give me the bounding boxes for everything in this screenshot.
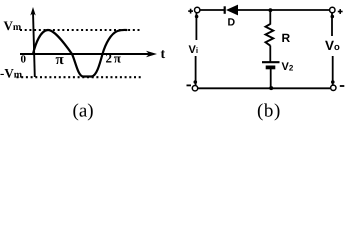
wire: battery to bottom rail	[270, 69, 272, 88]
svg-text:Vo: Vo	[325, 38, 340, 53]
plus sign top-right	[338, 9, 343, 14]
svg-text:t: t	[161, 47, 166, 62]
connection dot below top-right terminal	[331, 15, 335, 19]
terminal top-left (open circle)	[195, 7, 200, 12]
Vm dotted level line	[20, 29, 141, 31]
-Vm dotted level line	[17, 76, 142, 78]
terminal top-right (open circle)	[330, 7, 335, 12]
diode D (cathode bar left, triangle pointing left)	[224, 5, 238, 16]
svg-text:-Vm: -Vm	[0, 66, 23, 81]
minus sign bottom-left	[187, 84, 192, 86]
terminal bottom-left (open circle)	[192, 86, 197, 91]
connection dot above bottom-right terminal	[331, 80, 335, 84]
svg-text:0: 0	[21, 54, 27, 66]
wire: left rail lower segment	[195, 56, 197, 85]
sine wave curve	[33, 30, 127, 77]
wire: right rail lower segment	[332, 56, 334, 85]
svg-text:2π: 2π	[106, 51, 123, 66]
wire: left rail upper segment	[195, 13, 197, 40]
battery V2: long top plate	[262, 61, 280, 63]
minus sign bottom-right	[340, 85, 345, 87]
svg-text:(b): (b)	[257, 101, 281, 122]
junction node on bottom wire	[269, 86, 273, 90]
wire: right rail upper segment	[331, 13, 333, 36]
svg-text:π: π	[56, 52, 65, 68]
svg-text:(a): (a)	[73, 101, 94, 122]
svg-text:R: R	[282, 31, 291, 45]
connection dot above bottom-left terminal	[194, 80, 198, 84]
plus sign top-left	[188, 9, 193, 14]
y-axis (vertical axis with arrow)	[30, 7, 35, 77]
connection dot below top-left terminal	[195, 15, 199, 19]
wire: top rail right segment	[238, 9, 331, 11]
wire: bottom rail	[198, 87, 330, 89]
svg-text:Vi: Vi	[189, 44, 199, 56]
wire: middle branch top (junction to resistor)	[269, 11, 271, 25]
junction node on top wire	[269, 8, 273, 12]
svg-text:Vm: Vm	[4, 18, 22, 33]
t-axis (horizontal axis with arrow)	[20, 51, 157, 57]
wire: resistor to battery	[269, 46, 271, 63]
svg-text:D: D	[228, 17, 236, 29]
battery V2: short thick bottom plate	[266, 66, 276, 70]
svg-text:V2: V2	[282, 61, 294, 73]
resistor R (zigzag)	[266, 24, 274, 46]
wire: top rail left segment	[200, 9, 224, 11]
terminal bottom-right (open circle)	[331, 85, 336, 90]
